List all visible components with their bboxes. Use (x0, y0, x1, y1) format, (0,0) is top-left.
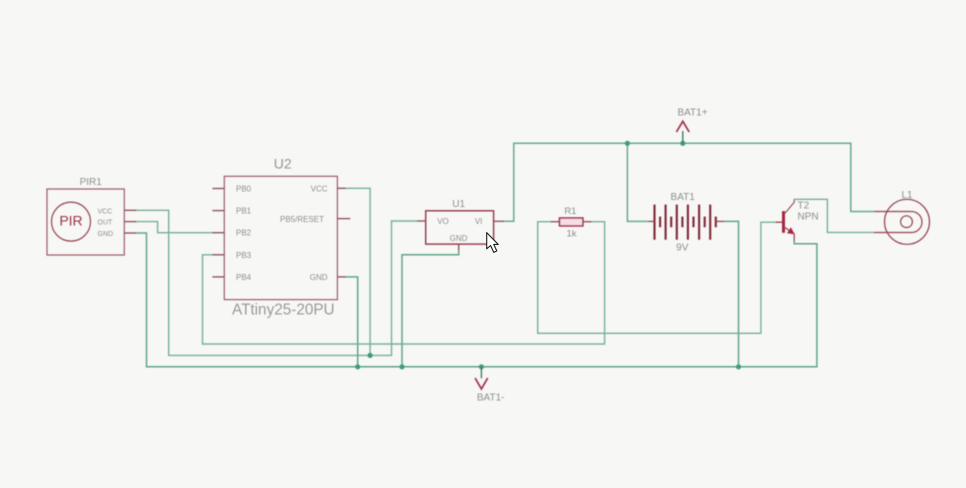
svg-text:PB4: PB4 (236, 273, 252, 282)
svg-text:R1: R1 (564, 206, 576, 217)
svg-text:PB1: PB1 (236, 207, 252, 216)
transistor T2 NPN (776, 199, 819, 241)
lamp L1 (874, 199, 930, 244)
svg-text:T2: T2 (798, 201, 810, 212)
wire T2 collector to L1 (794, 199, 874, 232)
wire GND net rail (137, 221, 817, 366)
pin PB0 (212, 188, 224, 190)
svg-text:OUT: OUT (98, 220, 114, 227)
svg-text:GND: GND (450, 234, 468, 243)
wire R1 right to U2 PB3 (203, 222, 605, 344)
svg-text:VO: VO (437, 217, 449, 226)
pin VCC of U2 (337, 187, 346, 189)
svg-text:BAT1+: BAT1+ (677, 108, 707, 119)
junction node U1 GND on GND rail (399, 364, 404, 369)
net flag BAT1- (475, 367, 504, 404)
voltage regulator U1 (417, 199, 505, 251)
pin VI of U1 (494, 220, 505, 222)
svg-text:ATtiny25-20PU: ATtiny25-20PU (232, 302, 335, 319)
junction node battery negative on GND rail (736, 364, 741, 369)
svg-text:BAT1-: BAT1- (477, 393, 505, 404)
svg-text:U1: U1 (452, 199, 465, 210)
battery BAT1 9V (655, 205, 716, 240)
junction node top rail at battery (625, 141, 630, 146)
junction node U2 GND on GND rail (355, 364, 360, 369)
svg-text:PIR1: PIR1 (80, 177, 103, 188)
pin PB5/RESET (337, 218, 350, 220)
pin GND of U2 (337, 276, 346, 278)
pin OUT of PIR1 (124, 221, 136, 223)
PIR sensor PIR1 (47, 177, 137, 255)
svg-text:GND: GND (98, 231, 114, 238)
pin PB4 (212, 276, 224, 278)
MCU U2 ATtiny25-20PU (212, 155, 350, 318)
svg-text:VCC: VCC (311, 185, 328, 194)
pin PB3 (212, 254, 224, 256)
wire BAT+ net (top rail) (505, 143, 874, 221)
svg-text:U2: U2 (274, 155, 292, 171)
svg-text:PIR: PIR (59, 213, 82, 229)
svg-text:NPN: NPN (798, 212, 819, 223)
resistor R1 1k (551, 206, 592, 239)
mouse cursor (487, 233, 499, 253)
pin VCC of PIR1 (124, 209, 136, 211)
junction node BAT1+ flag (680, 141, 685, 146)
pin VO of U1 (417, 220, 426, 222)
svg-text:PB5/RESET: PB5/RESET (280, 215, 324, 224)
svg-text:VI: VI (475, 217, 483, 226)
svg-text:PB0: PB0 (236, 185, 252, 194)
pin PB1 (212, 210, 224, 212)
junction node U2 VCC on VCC rail (368, 353, 373, 358)
svg-text:PB2: PB2 (236, 229, 252, 238)
svg-text:BAT1: BAT1 (671, 192, 696, 203)
svg-text:9V: 9V (676, 242, 689, 253)
pin GND of U1 (458, 244, 460, 250)
wire VCC net (PIR VCC - U2 VCC - U1 VO) (137, 188, 418, 355)
svg-text:1k: 1k (566, 228, 576, 239)
pin PB2 (212, 232, 224, 234)
junction node BAT1- flag (479, 364, 484, 369)
svg-text:L1: L1 (901, 190, 913, 201)
svg-text:PB3: PB3 (236, 251, 252, 260)
svg-text:GND: GND (310, 273, 328, 282)
wire R1 left to T2 base (538, 222, 776, 334)
svg-text:VCC: VCC (98, 208, 113, 215)
wire OUT net (PIR OUT - U2 PB2) (137, 222, 215, 233)
pin GND of PIR1 (124, 232, 136, 234)
net flag BAT1+ (676, 108, 707, 144)
